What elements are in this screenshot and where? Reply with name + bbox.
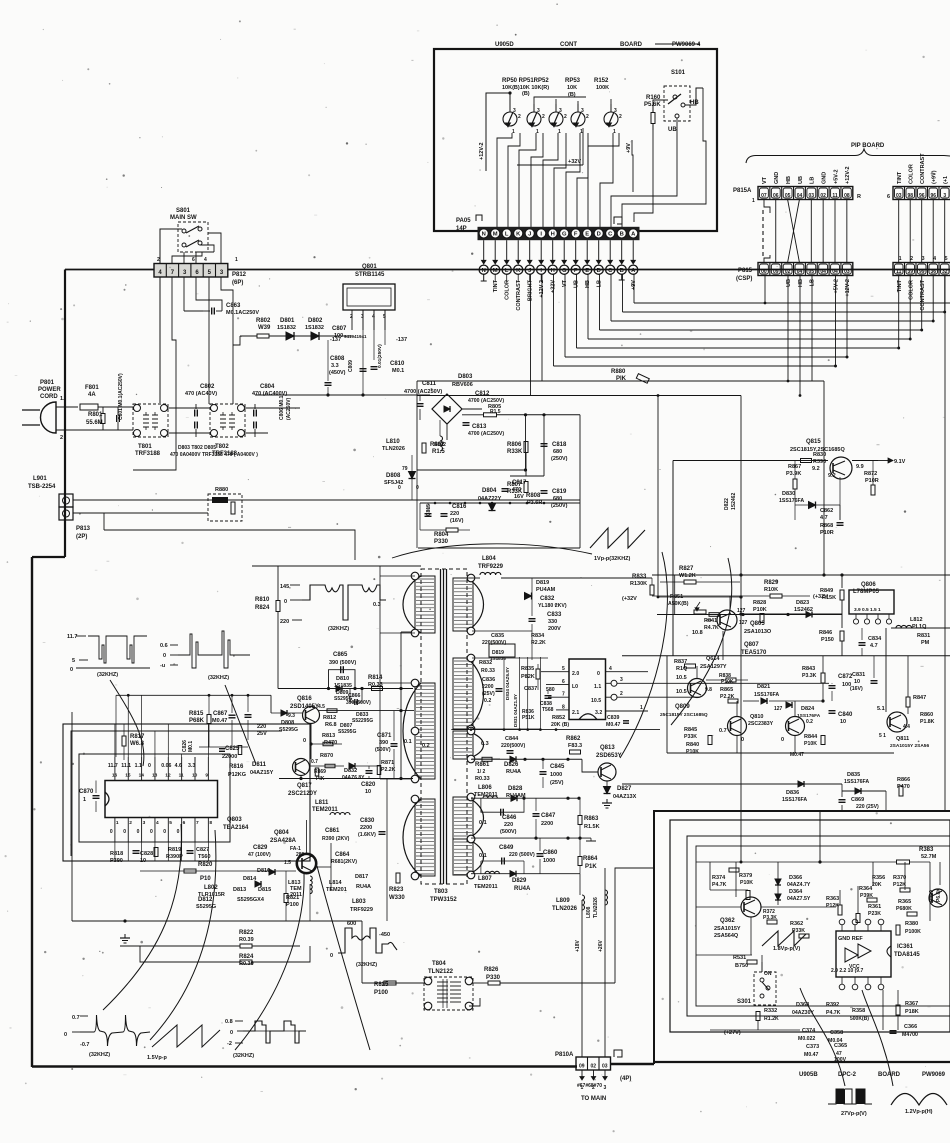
svg-text:500K(B): 500K(B) — [850, 1016, 869, 1022]
svg-text:2: 2 — [129, 820, 132, 826]
svg-text:13: 13 — [152, 773, 158, 779]
svg-text:P3.6R: P3.6R — [527, 500, 542, 506]
svg-text:T801: T801 — [138, 444, 152, 450]
svg-text:R832: R832 — [479, 660, 492, 666]
svg-text:(32KHZ): (32KHZ) — [328, 626, 349, 632]
svg-text:2: 2 — [542, 114, 545, 120]
svg-text:04: 04 — [832, 269, 838, 275]
svg-text:R822: R822 — [239, 930, 254, 936]
svg-text:T560: T560 — [198, 854, 211, 860]
svg-text:0.7: 0.7 — [719, 728, 727, 734]
svg-text:11.7: 11.7 — [108, 763, 118, 769]
svg-text:220(500V): 220(500V) — [501, 743, 525, 749]
svg-text:(32KHZ): (32KHZ) — [233, 1053, 254, 1059]
svg-text:4A: 4A — [88, 392, 96, 398]
svg-text:11.1: 11.1 — [121, 763, 131, 769]
svg-text:08: 08 — [844, 193, 850, 199]
svg-text:R363: R363 — [826, 896, 839, 902]
svg-text:3: 3 — [537, 108, 540, 114]
svg-text:32: 32 — [942, 269, 948, 275]
svg-text:P1.8K: P1.8K — [920, 719, 935, 725]
svg-text:HB: HB — [786, 176, 792, 184]
svg-text:R815: R815 — [189, 711, 204, 717]
svg-text:D810: D810 — [336, 676, 349, 682]
svg-text:C861: C861 — [325, 828, 340, 834]
svg-text:R872: R872 — [864, 471, 877, 477]
svg-text:1Vp-p(32KHZ): 1Vp-p(32KHZ) — [594, 556, 631, 562]
svg-text:1: 1 — [83, 797, 86, 803]
svg-text:0.2: 0.2 — [422, 743, 430, 749]
svg-text:1.1: 1.1 — [594, 684, 601, 690]
svg-text:TRF9229: TRF9229 — [350, 907, 373, 913]
svg-text:-2: -2 — [227, 1041, 232, 1047]
svg-text:0: 0 — [163, 653, 166, 659]
svg-text:R823: R823 — [389, 887, 404, 893]
svg-text:E: E — [585, 232, 589, 238]
svg-text:CONTRAST: CONTRAST — [516, 279, 522, 310]
svg-text:04AZ13X: 04AZ13X — [613, 794, 637, 800]
svg-text:L901: L901 — [33, 476, 47, 482]
svg-text:B750: B750 — [735, 963, 748, 969]
svg-text:2SC2383Y: 2SC2383Y — [748, 721, 774, 727]
svg-text:0: 0 — [284, 599, 287, 605]
svg-text:D830: D830 — [782, 491, 795, 497]
svg-text:P33K: P33K — [684, 734, 697, 740]
svg-text:36: 36 — [930, 269, 936, 275]
svg-text:0: 0 — [741, 737, 744, 743]
svg-text:PA05: PA05 — [456, 218, 471, 224]
svg-text:R834: R834 — [531, 633, 545, 639]
svg-text:Q811: Q811 — [896, 736, 909, 742]
svg-text:R361: R361 — [868, 904, 881, 910]
svg-text:(32KHZ): (32KHZ) — [97, 672, 118, 678]
svg-text:PIK: PIK — [316, 776, 325, 782]
svg-text:P10: P10 — [200, 876, 211, 882]
svg-text:20K: 20K — [872, 882, 882, 888]
svg-text:S101: S101 — [671, 70, 686, 76]
svg-text:R358: R358 — [852, 1008, 865, 1014]
svg-text:TEA5170: TEA5170 — [741, 650, 767, 656]
svg-text:P3.9K: P3.9K — [786, 471, 801, 477]
svg-text:R824: R824 — [255, 605, 270, 611]
svg-text:R802: R802 — [434, 442, 446, 448]
svg-text:1.1: 1.1 — [135, 763, 142, 769]
svg-text:RP50 RP51RP52: RP50 RP51RP52 — [502, 78, 549, 84]
svg-text:220: 220 — [280, 619, 289, 625]
svg-text:05: 05 — [785, 193, 791, 199]
svg-text:R390 (2KV): R390 (2KV) — [322, 836, 350, 842]
svg-text:D813: D813 — [233, 887, 246, 893]
svg-text:P801: P801 — [40, 380, 55, 386]
svg-text:UB: UB — [786, 279, 792, 287]
svg-text:14P: 14P — [456, 226, 467, 232]
svg-text:52.7M: 52.7M — [921, 854, 937, 860]
svg-text:12: 12 — [165, 773, 171, 779]
svg-text:941941941: 941941941 — [344, 334, 367, 339]
svg-text:M0.47: M0.47 — [212, 718, 227, 724]
svg-text:0: 0 — [64, 1032, 67, 1038]
svg-text:P815: P815 — [738, 268, 753, 274]
svg-text:S5295G: S5295G — [196, 904, 216, 910]
svg-text:D811: D811 — [252, 762, 267, 768]
svg-text:9.2: 9.2 — [828, 473, 836, 479]
svg-text:R816: R816 — [229, 764, 244, 770]
svg-text:20K (B): 20K (B) — [551, 722, 569, 728]
svg-text:09: 09 — [579, 1064, 585, 1070]
svg-text:79: 79 — [402, 466, 408, 472]
svg-text:C829: C829 — [253, 845, 268, 851]
svg-text:-0.7: -0.7 — [80, 1042, 89, 1048]
svg-text:470: 470 — [512, 487, 521, 493]
svg-text:S5295G: S5295G — [334, 696, 352, 702]
svg-text:0.1: 0.1 — [479, 853, 487, 859]
svg-text:+18V: +18V — [575, 940, 581, 952]
svg-text:L811: L811 — [315, 800, 329, 806]
svg-text:R4.7K: R4.7K — [704, 625, 719, 631]
svg-text:C808: C808 — [330, 356, 345, 362]
svg-text:04AZ22Y: 04AZ22Y — [478, 496, 502, 502]
svg-text:(500V): (500V) — [500, 829, 517, 835]
svg-text:3: 3 — [614, 108, 617, 114]
svg-text:P10R: P10R — [820, 530, 834, 536]
svg-text:2: 2 — [586, 114, 589, 120]
svg-text:C867: C867 — [213, 711, 228, 717]
svg-text:R370: R370 — [893, 875, 906, 881]
svg-text:+12V-2: +12V-2 — [479, 142, 485, 160]
svg-text:1: 1 — [116, 820, 119, 826]
svg-text:Q805: Q805 — [750, 621, 765, 627]
svg-text:47 (100V): 47 (100V) — [248, 852, 271, 858]
svg-text:C860: C860 — [543, 850, 558, 856]
svg-text:04AZ7.5Y: 04AZ7.5Y — [787, 896, 811, 902]
svg-text:(250V): (250V) — [551, 503, 568, 509]
svg-text:3.3: 3.3 — [188, 763, 195, 769]
svg-text:P10K: P10K — [740, 880, 753, 886]
svg-text:CONTRAST: CONTRAST — [920, 279, 926, 310]
svg-text:(450V): (450V) — [329, 370, 346, 376]
svg-text:16: 16 — [112, 773, 118, 779]
svg-text:02: 02 — [590, 1064, 596, 1070]
svg-text:F83.3: F83.3 — [568, 743, 582, 749]
svg-text:0.06: 0.06 — [161, 763, 171, 769]
svg-text:R808: R808 — [526, 493, 541, 499]
svg-text:(CSP): (CSP) — [736, 276, 752, 282]
svg-text:S301: S301 — [737, 999, 752, 1005]
svg-text:11: 11 — [832, 193, 838, 199]
svg-text:C373: C373 — [806, 1044, 819, 1050]
svg-text:07: 07 — [761, 193, 767, 199]
svg-text:220: 220 — [450, 511, 459, 517]
svg-text:L814: L814 — [329, 880, 342, 886]
svg-text:Q806: Q806 — [861, 582, 876, 588]
svg-text:4.6: 4.6 — [175, 763, 182, 769]
svg-text:1.8Vp-p(V): 1.8Vp-p(V) — [773, 946, 800, 952]
svg-text:P10K: P10K — [804, 741, 817, 747]
svg-text:D824: D824 — [801, 706, 815, 712]
svg-text:9: 9 — [205, 773, 208, 779]
svg-text:R814: R814 — [368, 675, 383, 681]
svg-text:R364: R364 — [859, 886, 873, 892]
svg-text:R861: R861 — [475, 762, 490, 768]
svg-text:R826: R826 — [484, 967, 499, 973]
svg-text:2SA1015Y 2SA56: 2SA1015Y 2SA56 — [890, 743, 929, 749]
svg-text:R365: R365 — [898, 899, 911, 905]
svg-text:LB: LB — [810, 279, 816, 286]
svg-text:T568: T568 — [542, 707, 554, 713]
svg-text:(6P): (6P) — [232, 280, 243, 286]
svg-text:S801: S801 — [176, 208, 191, 214]
svg-text:25C1815Y 2SC1685Q: 25C1815Y 2SC1685Q — [660, 712, 708, 718]
svg-text:4.5: 4.5 — [318, 704, 325, 710]
svg-text:G: G — [562, 232, 567, 238]
svg-text:1SS176FA: 1SS176FA — [782, 797, 807, 803]
svg-text:10: 10 — [192, 773, 198, 779]
svg-text:M0.1: M0.1 — [188, 741, 194, 752]
svg-text:D834 04AZ6.8Y: D834 04AZ6.8Y — [505, 667, 510, 700]
svg-text:15: 15 — [125, 773, 131, 779]
svg-text:P1K: P1K — [585, 864, 597, 870]
svg-text:7: 7 — [196, 820, 199, 826]
svg-text:R880: R880 — [215, 487, 228, 493]
svg-text:R0.33: R0.33 — [475, 776, 490, 782]
svg-text:N: N — [482, 232, 486, 238]
svg-text:R1.5K: R1.5K — [584, 824, 600, 830]
svg-text:5.1: 5.1 — [877, 706, 885, 712]
svg-text:1.5: 1.5 — [284, 860, 291, 866]
svg-text:T803: T803 — [434, 889, 448, 895]
svg-text:9.8: 9.8 — [705, 687, 712, 693]
svg-text:R1Q: R1Q — [676, 666, 688, 672]
svg-text:C871: C871 — [377, 733, 392, 739]
svg-text:04: 04 — [820, 269, 826, 275]
svg-text:L802: L802 — [204, 885, 218, 891]
svg-text:C801 M0.1(AC250V): C801 M0.1(AC250V) — [118, 373, 124, 420]
svg-text:C870: C870 — [79, 789, 94, 795]
svg-text:B: B — [620, 232, 624, 238]
svg-text:0: 0 — [177, 829, 180, 835]
svg-text:4700 (AC250V): 4700 (AC250V) — [468, 431, 504, 437]
svg-text:C862: C862 — [820, 508, 833, 514]
svg-text:39: 39 — [907, 269, 913, 275]
svg-text:C809: C809 — [348, 360, 354, 372]
svg-text:L0: L0 — [572, 684, 578, 690]
svg-text:680: 680 — [553, 496, 562, 502]
svg-text:C837: C837 — [524, 686, 537, 692]
svg-text:4: 4 — [609, 666, 612, 672]
svg-text:(2P): (2P) — [76, 534, 87, 540]
svg-text:C804: C804 — [260, 384, 275, 390]
svg-text:R828: R828 — [753, 600, 766, 606]
svg-text:1S1832: 1S1832 — [305, 325, 324, 331]
svg-text:2SA1013O: 2SA1013O — [744, 629, 772, 635]
svg-text:R868: R868 — [820, 523, 833, 529]
svg-text:2: 2 — [518, 114, 521, 120]
svg-text:P813: P813 — [76, 526, 91, 532]
svg-text:C813: C813 — [472, 424, 487, 430]
svg-text:R802: R802 — [256, 318, 271, 324]
svg-text:UB: UB — [668, 127, 677, 133]
svg-text:TLN2026: TLN2026 — [382, 446, 405, 452]
svg-text:C832: C832 — [540, 596, 555, 602]
svg-text:C849: C849 — [499, 845, 514, 851]
svg-text:R812: R812 — [323, 715, 336, 721]
svg-text:1.5Vp-p: 1.5Vp-p — [147, 1055, 168, 1061]
svg-text:14: 14 — [139, 773, 145, 779]
svg-text:TPW3152: TPW3152 — [430, 897, 457, 903]
svg-text:R374: R374 — [712, 875, 726, 881]
svg-text:C845: C845 — [550, 764, 565, 770]
svg-text:03: 03 — [844, 269, 850, 275]
svg-text:1: 1 — [235, 257, 238, 263]
svg-text:R470: R470 — [324, 740, 337, 746]
svg-text:100K: 100K — [596, 85, 609, 91]
svg-text:2.0 2.2 10 (9.7: 2.0 2.2 10 (9.7 — [831, 968, 863, 974]
svg-text:C836: C836 — [482, 677, 495, 683]
svg-text:P10R: P10R — [865, 478, 879, 484]
svg-text:2SA1015Y: 2SA1015Y — [714, 926, 741, 932]
svg-text:0.2: 0.2 — [806, 719, 813, 725]
svg-text:C810: C810 — [390, 361, 405, 367]
svg-text:J: J — [528, 232, 531, 238]
svg-text:10.5: 10.5 — [676, 689, 687, 695]
svg-text:(1.6KV): (1.6KV) — [358, 832, 376, 838]
svg-text:MAIN SW: MAIN SW — [170, 215, 197, 221]
svg-text:C834: C834 — [868, 636, 882, 642]
svg-text:16V: 16V — [514, 494, 524, 500]
svg-text:Q807: Q807 — [744, 642, 759, 648]
svg-text:3.9 0.5 1.5 1: 3.9 0.5 1.5 1 — [854, 607, 881, 613]
svg-text:0.8: 0.8 — [225, 1019, 233, 1025]
svg-text:CONTRAST: CONTRAST — [920, 153, 926, 184]
svg-text:3: 3 — [943, 193, 946, 199]
svg-text:3: 3 — [604, 1085, 607, 1091]
svg-text:11.7: 11.7 — [67, 634, 77, 640]
svg-text:10.5: 10.5 — [591, 698, 601, 704]
svg-text:0.2: 0.2 — [484, 698, 491, 704]
svg-text:+12V-2: +12V-2 — [845, 166, 851, 184]
svg-text:2200: 2200 — [482, 684, 494, 690]
svg-text:P51K: P51K — [522, 715, 535, 721]
svg-text:9.1V: 9.1V — [894, 459, 906, 465]
svg-text:P100: P100 — [374, 990, 389, 996]
svg-text:R804: R804 — [434, 532, 449, 538]
svg-text:10: 10 — [840, 719, 846, 725]
svg-text:R1.5: R1.5 — [490, 409, 501, 415]
svg-text:0: 0 — [137, 829, 140, 835]
svg-text:C844: C844 — [505, 736, 519, 742]
svg-text:R831: R831 — [917, 633, 930, 639]
svg-text:D808: D808 — [281, 720, 294, 726]
svg-text:C811: C811 — [422, 381, 437, 387]
svg-text:1SS176FA: 1SS176FA — [754, 692, 779, 698]
svg-text:2.1: 2.1 — [572, 710, 579, 716]
svg-text:04AZ6.8Y: 04AZ6.8Y — [342, 775, 365, 781]
svg-text:D816: D816 — [257, 868, 270, 874]
svg-text:0: 0 — [70, 667, 73, 673]
svg-text:R880: R880 — [611, 369, 626, 375]
svg-text:390 (500V): 390 (500V) — [329, 660, 356, 666]
svg-text:96: 96 — [930, 193, 936, 199]
svg-text:TEM2011: TEM2011 — [312, 807, 338, 813]
svg-text:2.0: 2.0 — [572, 671, 579, 677]
svg-text:10.8: 10.8 — [692, 630, 703, 636]
svg-text:C828: C828 — [140, 851, 153, 857]
svg-text:D804: D804 — [482, 488, 497, 494]
svg-text:C865: C865 — [333, 652, 348, 658]
svg-text:680: 680 — [553, 449, 562, 455]
svg-text:R824: R824 — [239, 954, 254, 960]
svg-text:T802: T802 — [215, 444, 229, 450]
svg-text:D823: D823 — [796, 600, 809, 606]
svg-text:2: 2 — [564, 114, 567, 120]
svg-text:3: 3 — [143, 820, 146, 826]
svg-text:10K: 10K — [567, 85, 577, 91]
svg-text:R380: R380 — [905, 921, 918, 927]
svg-text:220(500V): 220(500V) — [482, 640, 506, 646]
svg-text:GND REF: GND REF — [838, 936, 863, 942]
svg-text:2SA1297Y: 2SA1297Y — [700, 664, 727, 670]
svg-text:R827: R827 — [679, 566, 694, 572]
svg-text:P18K: P18K — [905, 1009, 919, 1015]
svg-text:BOARD: BOARD — [620, 42, 643, 48]
svg-text:RP53: RP53 — [565, 78, 581, 84]
svg-text:TO MAIN: TO MAIN — [581, 1096, 606, 1102]
svg-text:330: 330 — [548, 619, 557, 625]
svg-text:R806: R806 — [507, 442, 522, 448]
svg-text:M0.47: M0.47 — [606, 722, 621, 728]
svg-text:D815: D815 — [258, 887, 271, 893]
svg-text:GND: GND — [774, 172, 780, 184]
svg-text:200V: 200V — [548, 626, 561, 632]
svg-text:C833: C833 — [547, 612, 562, 618]
svg-text:Q816: Q816 — [297, 696, 312, 702]
svg-text:Q801: Q801 — [362, 264, 377, 270]
svg-text:C827: C827 — [196, 847, 209, 853]
svg-text:P150: P150 — [821, 637, 834, 643]
svg-text:(+9V): (+9V) — [932, 170, 938, 184]
svg-text:R681(2KV): R681(2KV) — [331, 859, 357, 865]
svg-text:99: 99 — [919, 269, 925, 275]
svg-text:96: 96 — [919, 193, 925, 199]
svg-text:04AZ15Y: 04AZ15Y — [250, 770, 274, 776]
svg-text:127: 127 — [774, 706, 783, 712]
svg-text:R1.2K: R1.2K — [764, 1016, 779, 1022]
svg-text:R15K: R15K — [822, 595, 836, 601]
svg-text:M0.022: M0.022 — [798, 1036, 815, 1042]
svg-text:C818: C818 — [552, 442, 567, 448]
svg-text:L809: L809 — [556, 898, 570, 904]
svg-text:P330: P330 — [434, 539, 449, 545]
svg-text:R819: R819 — [168, 847, 181, 853]
svg-text:TEA2164: TEA2164 — [223, 825, 249, 831]
svg-text:R362: R362 — [790, 921, 803, 927]
svg-text:P810A: P810A — [555, 1052, 574, 1058]
svg-text:0: 0 — [330, 953, 333, 959]
svg-text:R820: R820 — [198, 862, 213, 868]
svg-text:3: 3 — [513, 108, 516, 114]
svg-text:D827: D827 — [617, 786, 632, 792]
svg-text:U905B: U905B — [799, 1072, 818, 1078]
svg-text:POWER: POWER — [38, 387, 61, 393]
svg-text:Q810: Q810 — [750, 714, 763, 720]
svg-text:7: 7 — [562, 692, 565, 698]
svg-text:4: 4 — [156, 820, 159, 826]
svg-text:04: 04 — [797, 193, 803, 199]
svg-text:R867: R867 — [788, 464, 801, 470]
svg-text:P12K: P12K — [893, 882, 906, 888]
svg-text:W1.2K: W1.2K — [679, 573, 696, 579]
svg-text:YL180 2KV): YL180 2KV) — [538, 603, 567, 609]
